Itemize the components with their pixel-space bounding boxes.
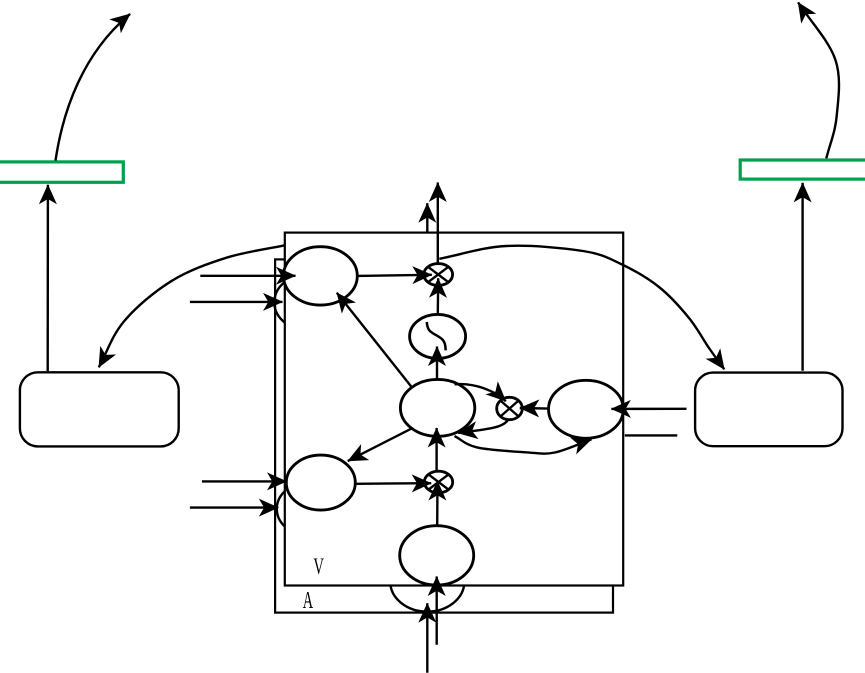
cell to forget gate peephole arrow (348, 428, 412, 461)
cell to input gate peephole arrow (337, 293, 412, 388)
left hidden-state box (20, 372, 179, 446)
output activation ellipse (squiggle) (410, 314, 466, 358)
right hidden-state box (695, 373, 842, 447)
box B input-gate input arrow (190, 301, 283, 303)
net input arrow (bottom, into g) (436, 577, 438, 645)
input gate to top multiply arrow (357, 275, 432, 276)
right hidden box to bar arrow (801, 183, 803, 371)
input-gate input arrow (box A) (200, 275, 295, 277)
recurrent curve to right hidden box (439, 246, 724, 370)
g to bottom multiply arrow (436, 481, 439, 526)
box B input gate ellipse (offset copy, left sliver visible) (274, 273, 348, 331)
cell output arrow (top) (437, 183, 439, 264)
input activation ellipse (bottom) (400, 526, 474, 585)
box B forget-gate input arrow (190, 506, 278, 508)
multiply node mid (output gate) (497, 397, 523, 419)
recurrent curve to left hidden box (99, 245, 285, 367)
forget gate to bottom multiply arrow (355, 482, 431, 485)
outer cell box B (offset copy behind) (275, 259, 613, 612)
forget gate ellipse (bottom-left) (286, 455, 355, 510)
cell to h arrow (436, 347, 438, 380)
multiply node bottom (424, 471, 452, 493)
left output curved arrow (56, 14, 131, 161)
box B bottom input arrow (426, 603, 428, 673)
squiggle glyph (427, 322, 446, 350)
mid multiply to cell curve (458, 420, 508, 433)
multiply node top (424, 264, 453, 286)
forget-gate input arrow (box A) (202, 480, 287, 482)
inner cell box A (front) (285, 233, 623, 586)
cell to output gate peephole curve (455, 436, 592, 454)
input gate ellipse (top-left) (284, 247, 358, 305)
box B forget gate ellipse (offset copy, left sliver visible) (277, 481, 346, 536)
svg-text:A: A (303, 588, 314, 614)
bottom multiply to cell arrow (435, 428, 437, 471)
output-gate input arrow (box A right) (611, 408, 686, 411)
right output bar (green) (740, 160, 865, 179)
cell ellipse (center) (400, 379, 474, 436)
h to top multiply arrow (437, 278, 440, 314)
output gate ellipse (right) (549, 380, 624, 438)
box B output arrow (top stub) (426, 203, 428, 231)
svg-text:V: V (313, 554, 324, 579)
output gate to mid multiply arrow (520, 407, 549, 410)
left output bar (green) (0, 162, 123, 182)
cell to mid multiply curve (455, 384, 506, 401)
right output curved arrow (798, 2, 839, 158)
left hidden box to bar arrow (47, 185, 50, 371)
box B output-gate input line (right stub) (625, 434, 678, 436)
box B input activation ellipse (offset copy, bottom sliver visible) (390, 552, 464, 611)
